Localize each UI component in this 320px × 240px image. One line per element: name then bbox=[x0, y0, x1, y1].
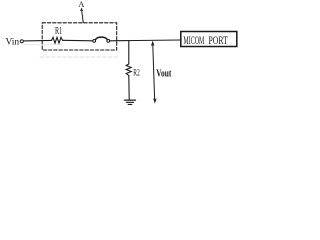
scan echo under Vin wire bbox=[24, 44, 62, 46]
wire switch to MICOM PORT bbox=[110, 39, 180, 42]
terminal circle at Vin bbox=[20, 40, 23, 43]
svg-text:A: A bbox=[78, 0, 85, 9]
svg-text:R1: R1 bbox=[55, 26, 62, 37]
arrow leader from A to box bbox=[82, 11, 84, 23]
svg-text:Vin: Vin bbox=[6, 38, 20, 48]
dashed component box A bbox=[42, 23, 117, 50]
svg-text:Vout: Vout bbox=[156, 68, 171, 80]
svg-text:MICOM: MICOM bbox=[183, 33, 204, 47]
MICOM PORT box bbox=[181, 32, 237, 47]
switch contact left bbox=[93, 40, 96, 43]
ground bbox=[124, 99, 135, 101]
wire R1 to switch bbox=[63, 39, 93, 42]
node Vout label bbox=[156, 68, 171, 80]
resistor R1 zigzag bbox=[52, 37, 63, 43]
switch blade arc bbox=[96, 37, 108, 40]
MICOM PORT text bbox=[183, 33, 228, 47]
resistor R1 label bbox=[55, 26, 62, 37]
wire down to R2 bbox=[128, 40, 130, 64]
resistor R2 label bbox=[133, 68, 140, 78]
wire R2 to ground bbox=[128, 76, 130, 100]
svg-text:R2: R2 bbox=[133, 68, 140, 78]
scan echo under dashed box bbox=[40, 56, 118, 58]
resistor R2 zigzag bbox=[126, 64, 131, 76]
label A bbox=[78, 0, 85, 9]
switch contact right bbox=[107, 40, 110, 43]
svg-text:PORT: PORT bbox=[209, 33, 229, 47]
Vout dimension arrow bbox=[153, 43, 155, 102]
node Vin label bbox=[6, 38, 20, 48]
wire from Vin terminal to R1 bbox=[24, 39, 52, 42]
